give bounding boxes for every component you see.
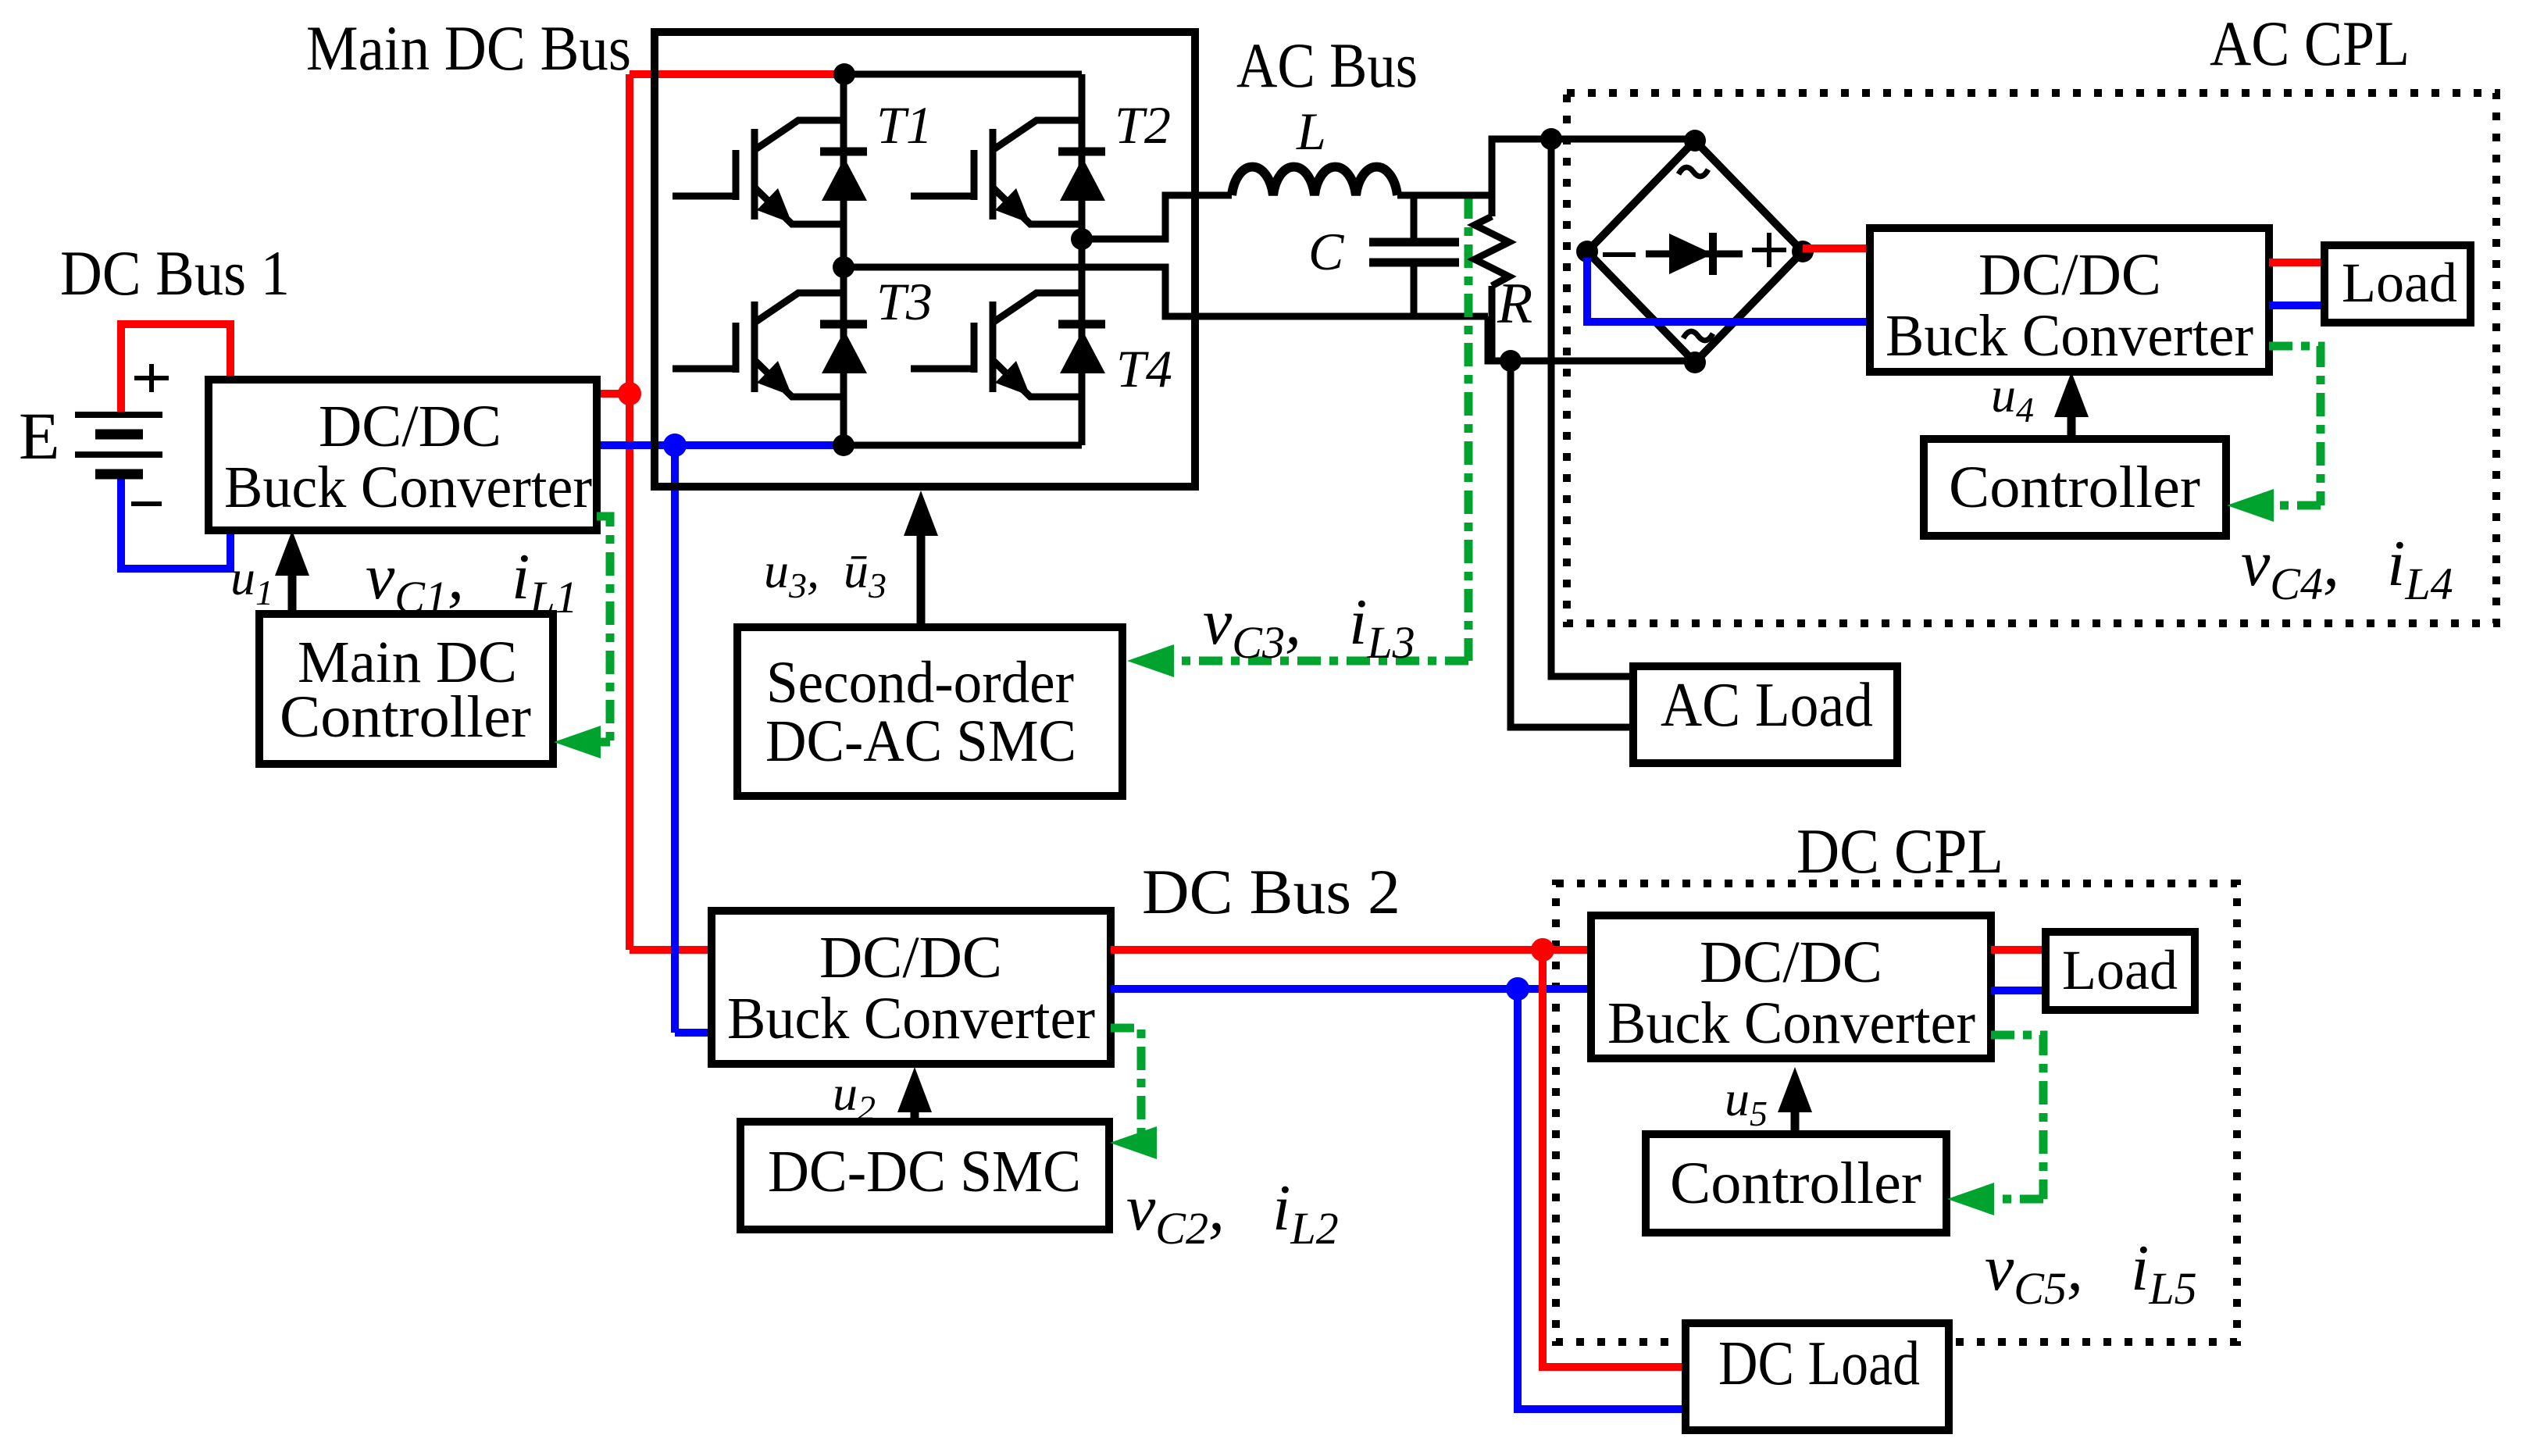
label - battery	[131, 501, 162, 506]
wire green feedback vC1 iL1 (buck1 to controller1)	[595, 516, 610, 742]
svg-text:Load: Load	[2342, 252, 2457, 314]
svg-text:DC/DC: DC/DC	[1978, 242, 2161, 308]
battery E source	[75, 415, 162, 474]
AC CPL dotted boundary box	[1567, 93, 2496, 623]
arrow u5 control signal into buck5	[1791, 1101, 1800, 1134]
wire right leg (T2/T4)	[1079, 74, 1086, 445]
inverter H-bridge outer box	[655, 32, 1195, 487]
svg-text:AC Load: AC Load	[1661, 671, 1873, 740]
transistor T3	[673, 293, 867, 397]
dc/dc buck converter 5 box (DC CPL)	[1591, 915, 1991, 1058]
svg-text:C: C	[1308, 222, 1344, 281]
wire red bridge to buck4	[1803, 244, 1870, 252]
resistor R leads	[1489, 195, 1496, 361]
svg-text:R: R	[1497, 272, 1532, 336]
wire blue DC bus 2 to DC load	[1518, 989, 1686, 1409]
wire AC top step up to rectifier level	[1492, 139, 1695, 195]
wire red DC bus 2 to DC load	[1543, 950, 1686, 1367]
wire red DC bus 2	[1111, 946, 1591, 954]
svg-text:Buck Converter: Buck Converter	[1886, 303, 2253, 369]
wire red buck5 to load	[1991, 946, 2046, 954]
svg-text:T3: T3	[876, 272, 933, 331]
svg-text:DC/DC: DC/DC	[1700, 930, 1882, 995]
arrowhead green into smc2	[1110, 1126, 1157, 1159]
label ~ top of bridge	[1679, 167, 1708, 177]
svg-text:DC Bus 2: DC Bus 2	[1142, 856, 1400, 927]
controller box (DC CPL)	[1646, 1134, 1946, 1233]
node bridge top vertex	[1684, 130, 1706, 152]
node blue junction at buck1 output	[663, 434, 687, 457]
svg-text:Buck Converter: Buck Converter	[727, 986, 1095, 1051]
wire blue main bus (buck1 output to H-bridge and DC bus 2)	[597, 445, 844, 1033]
svg-text:Load: Load	[2062, 939, 2178, 1001]
node junction right-leg midpoint	[1071, 228, 1093, 250]
arrow u2 control signal into buck2	[911, 1101, 919, 1122]
dc load box	[1686, 1323, 1949, 1430]
wire blue buck5 to load	[1991, 987, 2046, 994]
wire green feedback vC3 iL3 (AC bus to SMC)	[1165, 195, 1468, 661]
node bridge left vertex	[1576, 241, 1598, 262]
wire blue bridge to buck4	[1587, 258, 1870, 322]
diode inside bridge	[1646, 251, 1743, 258]
svg-text:T1: T1	[876, 95, 933, 155]
node junction bottom rail blue entry	[833, 434, 854, 456]
svg-text:DC Bus 1: DC Bus 1	[60, 237, 290, 309]
wire blue buck4 to load	[2269, 302, 2324, 309]
svg-text:T4: T4	[1116, 339, 1172, 398]
wire red DC Bus 1 positive (battery + to buck input)	[121, 324, 230, 417]
arrow u4 control signal into buck4	[2068, 406, 2076, 439]
node blue junction DC bus 2	[1506, 977, 1529, 1001]
wire green feedback vC2 iL2 (buck2 to smc2)	[1111, 1028, 1141, 1143]
svg-text:T2: T2	[1115, 95, 1171, 155]
svg-text:AC Bus: AC Bus	[1236, 30, 1418, 101]
dc/dc buck converter 1 box	[209, 380, 597, 530]
capacitor C plates	[1369, 242, 1459, 262]
wire AC to AC Load (lower)	[1511, 361, 1633, 727]
svg-text:DC/DC: DC/DC	[819, 925, 1002, 990]
wire blue DC bus 2	[1111, 985, 1591, 993]
arrowhead green into controller5	[1947, 1183, 1994, 1215]
diode bridge rectifier diamond	[1587, 141, 1803, 362]
transistor T2	[911, 120, 1105, 224]
wire AC output from left-leg midpoint (lower terminal)	[844, 267, 1695, 361]
svg-text:AC CPL: AC CPL	[2210, 8, 2410, 79]
svg-text:Controller: Controller	[1949, 455, 2200, 520]
node red junction DC bus 2	[1531, 938, 1554, 962]
arrow u1 control signal into buck1	[288, 558, 297, 614]
node red junction at buck1 output	[618, 382, 641, 405]
dc/dc buck converter 4 box (AC CPL)	[1870, 228, 2269, 372]
wire bottom rail of H-bridge	[844, 442, 1082, 449]
dc/dc buck converter 2 box (DC bus 2)	[712, 911, 1111, 1064]
capacitor C stubs	[1411, 195, 1418, 316]
wire top rail of H-bridge	[844, 71, 1082, 78]
wire left leg (T1/T3)	[840, 74, 847, 445]
ac load box	[1633, 666, 1897, 763]
wire AC top line after inductor	[1397, 192, 1492, 199]
inductor L coil	[1232, 167, 1397, 195]
node junction left-leg midpoint	[833, 256, 854, 278]
node junction top rail red entry	[833, 63, 855, 85]
svg-text:DC-DC SMC: DC-DC SMC	[768, 1139, 1081, 1204]
arrowhead green into SMC	[1127, 644, 1174, 677]
node bridge bottom vertex	[1684, 352, 1706, 373]
transistor T4	[911, 293, 1105, 397]
wire green feedback vC4 iL4 (buck4 to controller4)	[2269, 346, 2321, 505]
svg-text:DC CPL: DC CPL	[1796, 815, 2003, 887]
wire red buck4 to load	[2269, 259, 2324, 266]
main dc controller box	[259, 614, 553, 764]
resistor R zigzag	[1475, 216, 1509, 286]
label + bridge dc positive	[1752, 233, 1786, 267]
DC CPL dotted boundary box	[1556, 883, 2237, 1342]
node junction AC bottom at rectifier line	[1500, 350, 1522, 372]
svg-text:Second-order: Second-order	[766, 650, 1074, 716]
wire blue DC Bus 1 negative (battery - to buck input)	[121, 472, 230, 569]
wire green feedback vC5 iL5 (buck5 to controller5)	[1991, 1035, 2043, 1199]
second-order dc-ac smc box	[737, 627, 1122, 796]
label + battery	[134, 364, 169, 392]
load box (DC CPL)	[2046, 932, 2195, 1010]
arrowhead green into controller4	[2227, 489, 2274, 522]
node bridge right vertex	[1792, 241, 1814, 262]
node junction AC top at rectifier line	[1540, 128, 1562, 150]
svg-text:DC Load: DC Load	[1718, 1329, 1920, 1398]
svg-text:E: E	[19, 398, 60, 473]
svg-text:Controller: Controller	[1670, 1151, 1921, 1216]
svg-text:DC-AC SMC: DC-AC SMC	[765, 708, 1076, 774]
arrowhead green into controller1	[554, 726, 601, 758]
controller box (AC CPL)	[1924, 439, 2226, 536]
arrow u3 control signal into H-bridge	[917, 525, 926, 627]
svg-text:Buck Converter: Buck Converter	[1607, 990, 1975, 1056]
svg-text:DC/DC: DC/DC	[319, 394, 501, 459]
wire AC to AC Load (upper)	[1551, 139, 1633, 676]
wire AC output from right-leg midpoint (upper terminal)	[1082, 195, 1232, 239]
label - bridge dc negative	[1603, 252, 1636, 257]
load box (AC CPL)	[2324, 245, 2471, 323]
label ~ bottom of bridge	[1683, 331, 1713, 341]
svg-text:Main DC Bus: Main DC Bus	[306, 12, 631, 84]
wire red main bus vertical (buck1 output to H-bridge and DC bus 2)	[597, 74, 844, 950]
svg-text:Controller: Controller	[280, 684, 531, 750]
svg-text:L: L	[1296, 102, 1326, 161]
transistor T1	[673, 120, 867, 224]
dc-dc smc box	[740, 1122, 1109, 1229]
svg-text:Buck Converter: Buck Converter	[224, 455, 592, 520]
